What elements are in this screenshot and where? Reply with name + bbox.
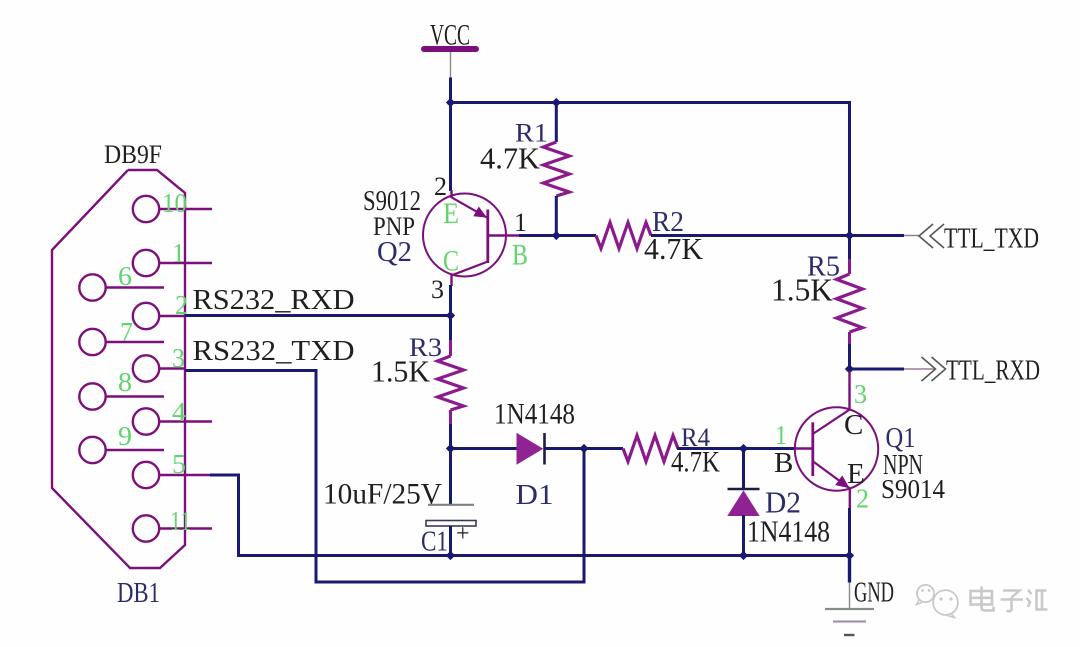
resistor R2 zigzag <box>596 223 651 249</box>
wire R2 to TTL_TXD port <box>651 234 904 237</box>
resistor R5 zigzag <box>837 274 863 332</box>
capacitor C1 top plate <box>428 504 474 506</box>
diode D1 value 1N4148 <box>494 398 575 431</box>
svg-text:1.5K: 1.5K <box>771 272 833 308</box>
node VCC top-rail junction <box>446 98 455 107</box>
diode D2 triangle <box>727 490 759 516</box>
ground GND label <box>854 577 894 609</box>
connector pin 3 number label <box>172 343 185 373</box>
svg-text:C: C <box>443 245 459 278</box>
svg-text:1N4148: 1N4148 <box>747 514 830 549</box>
wire node to R3 <box>449 314 452 341</box>
resistor R5 value 1.5K <box>771 272 833 308</box>
net RS232_TXD wire bottom horizontal <box>316 581 586 584</box>
connector pin 8 circle <box>79 383 105 409</box>
capacitor C1 value 10uF/25V <box>323 478 442 511</box>
connector pin 11 stub <box>159 527 212 529</box>
svg-text:3: 3 <box>854 379 867 409</box>
transistor Q1 emitter arrow (NPN, out of base) <box>835 475 849 488</box>
node R3/C1/D1 junction <box>446 444 455 453</box>
wire R5 top terminal <box>848 236 851 263</box>
node C1 bottom junction <box>446 551 455 560</box>
connector DB9F outline <box>52 170 185 568</box>
transistor Q1 C label <box>844 409 863 441</box>
svg-text:8: 8 <box>118 367 132 397</box>
connector pin 3 stub <box>159 367 186 369</box>
transistor Q1 pin3 label <box>854 379 867 409</box>
capacitor C1 top terminal <box>449 447 452 504</box>
connector pin 7 circle <box>79 329 105 355</box>
node D2 top junction <box>739 444 748 453</box>
capacitor C1 refdes <box>421 526 448 558</box>
svg-text:10: 10 <box>162 188 187 218</box>
svg-text:4: 4 <box>172 397 187 427</box>
port TTL_RXD chevron 2 <box>932 357 946 381</box>
transistor Q2 pin1 label <box>514 208 527 237</box>
resistor R5 top purple stub <box>848 259 851 274</box>
wire Q1 base purple stub <box>795 447 813 449</box>
connector pin 1 number label <box>172 238 185 268</box>
wire D2 vertical bottom <box>742 515 745 557</box>
connector pin 6 number label <box>118 261 132 291</box>
svg-text:6: 6 <box>118 261 132 291</box>
resistor R2 label <box>652 206 684 238</box>
svg-text:RS232_TXD: RS232_TXD <box>193 335 355 367</box>
net RS232_TXD wire vertical <box>315 369 318 584</box>
svg-text:E: E <box>443 197 459 230</box>
transistor Q1 B label <box>774 447 793 479</box>
connector pin 9 circle <box>79 437 105 463</box>
net RS232_RXD label <box>193 284 355 316</box>
port TTL_TXD label <box>944 223 1039 255</box>
connector pin 11 circle <box>133 515 159 541</box>
svg-text:1: 1 <box>775 420 787 450</box>
connector pin 1 circle <box>133 250 159 276</box>
resistor R1 zigzag <box>543 142 569 196</box>
node R1 bottom junction <box>552 231 561 240</box>
node TTL_RXD junction <box>845 364 854 373</box>
transistor Q1 refdes <box>886 422 916 454</box>
svg-text:C1: C1 <box>421 526 448 558</box>
connector DB9F title <box>104 140 162 169</box>
diode D1 refdes <box>516 479 554 511</box>
resistor R5 bottom purple stub <box>848 332 851 346</box>
connector DB1 refdes <box>117 577 160 609</box>
diode D2 cathode bar <box>728 488 760 491</box>
connector pin 1 stub <box>159 262 212 264</box>
transistor Q1 pin1 label <box>775 420 787 450</box>
wire R4 to Q1 base <box>677 447 796 450</box>
wire right drop from top rail <box>848 101 851 237</box>
connector pin 8 number label <box>118 367 132 397</box>
wire Q2 base to R2 <box>519 234 596 237</box>
transistor Q2 emitter line <box>452 197 489 218</box>
svg-text:4.7K: 4.7K <box>480 141 541 176</box>
svg-text:D1: D1 <box>516 479 554 511</box>
connector pin 4 number label <box>172 397 187 427</box>
connector pin 4 stub <box>159 420 212 422</box>
wire R3 bottom terminal <box>449 424 452 450</box>
wire Q2 base purple stub <box>488 234 519 236</box>
transistor Q2 C label <box>443 245 459 278</box>
watermark logo big bubble <box>933 590 958 617</box>
svg-text:4.7K: 4.7K <box>671 446 720 479</box>
svg-text:C: C <box>844 409 863 441</box>
wire bottom rail <box>239 554 852 557</box>
net RS232_TXD wire up to D1 <box>583 448 586 584</box>
transistor Q2 base bar <box>486 210 489 264</box>
watermark logo small bubble <box>917 585 935 605</box>
svg-text:B: B <box>512 239 528 272</box>
connector pin 10 number label <box>162 188 187 218</box>
svg-text:RS232_RXD: RS232_RXD <box>193 284 355 316</box>
transistor Q1 base bar <box>811 422 814 476</box>
svg-text:Q2: Q2 <box>377 236 412 268</box>
resistor R3 zigzag <box>438 356 464 410</box>
node D1/R4/TXD-loop junction <box>579 444 588 453</box>
svg-text:9: 9 <box>118 421 132 451</box>
net RS232_TXD label <box>193 335 355 367</box>
resistor R3 top purple stub <box>449 340 452 356</box>
wire VCC vertical to top rail <box>449 78 452 105</box>
resistor R2 value 4.7K <box>644 231 704 266</box>
power symbol VCC label <box>430 19 470 52</box>
svg-text:1.5K: 1.5K <box>371 354 431 389</box>
wire Q2 collector to node <box>449 285 452 317</box>
svg-text:TTL_RXD: TTL_RXD <box>946 355 1040 387</box>
connector pin 2 number label <box>175 290 188 320</box>
connector pin 7 number label <box>120 317 133 347</box>
transistor Q1 type NPN <box>883 449 923 481</box>
connector pin 10 circle <box>133 196 159 222</box>
node collector/RS232_RXD junction <box>446 311 455 320</box>
wire Q2 collector purple stub <box>450 275 452 287</box>
transistor Q2 circle <box>423 194 506 277</box>
diode D1 triangle <box>517 433 544 465</box>
wire node to D1 anode <box>451 447 518 450</box>
transistor Q2 emitter arrow (PNP, into base) <box>473 207 487 218</box>
connector pin 2 stub <box>159 315 186 317</box>
resistor R3 value 1.5K <box>371 354 431 389</box>
transistor Q1 E label <box>847 458 865 490</box>
wire top rail horizontal <box>449 101 851 104</box>
transistor Q1 circle <box>795 407 878 490</box>
transistor Q2 type PNP <box>373 212 415 241</box>
connector pin 4 circle <box>133 408 159 434</box>
node R1 top junction <box>552 98 561 107</box>
svg-text:3: 3 <box>172 343 185 373</box>
wire D1 cathode to junction <box>545 447 585 450</box>
connector pin 6 circle <box>79 274 105 300</box>
port TTL_TXD thin lead <box>904 235 919 237</box>
wire pin5 horizontal <box>210 474 240 477</box>
node TTL_TXD junction <box>845 231 854 240</box>
svg-text:TTL_TXD: TTL_TXD <box>944 223 1039 255</box>
connector pin 9 stub <box>106 449 165 451</box>
watermark char zi <box>1001 591 1024 612</box>
port TTL_RXD thin lead <box>904 368 934 370</box>
resistor R1 value 4.7K <box>480 141 541 176</box>
transistor Q1 name S9014 <box>881 474 945 504</box>
transistor Q2 refdes <box>377 236 412 268</box>
transistor Q2 pin2 label <box>434 172 447 201</box>
wire Q1 emitter to bottom rail <box>848 508 851 557</box>
svg-text:B: B <box>774 447 793 479</box>
capacitor C1 bottom terminal <box>449 526 452 557</box>
transistor Q1 collector stub <box>848 371 850 411</box>
transistor Q2 pin3 label <box>431 275 444 304</box>
power symbol VCC stem <box>450 52 452 78</box>
capacitor C1 plus sign <box>456 521 470 547</box>
svg-text:DB1: DB1 <box>117 577 160 609</box>
wire D2 vertical top <box>742 449 745 490</box>
svg-text:GND: GND <box>854 577 894 609</box>
connector pin 5 circle <box>133 462 159 488</box>
wire Q2 emitter purple stub <box>450 190 452 198</box>
connector pin 5 stub <box>159 474 210 476</box>
resistor R5 label <box>807 251 840 283</box>
svg-text:+: + <box>456 521 470 547</box>
resistor R4 zigzag <box>623 436 678 462</box>
watermark char hui <box>1027 590 1048 610</box>
port TTL_RXD chevron 1 <box>922 357 936 381</box>
net RS232_RXD wire <box>185 314 452 317</box>
svg-text:1: 1 <box>514 208 527 237</box>
connector pin 11 number label <box>170 506 191 536</box>
wire GND drop <box>848 556 851 583</box>
power symbol VCC bar <box>424 46 476 52</box>
svg-text:5: 5 <box>172 449 186 479</box>
capacitor C1 bottom plate <box>426 521 476 527</box>
connector pin 10 stub <box>159 208 212 210</box>
ground bar 1 <box>825 608 874 610</box>
connector pin 3 circle <box>133 355 159 381</box>
transistor Q2 B label <box>512 239 528 272</box>
svg-text:S9014: S9014 <box>881 474 945 504</box>
wire R5 bottom terminal <box>848 344 851 371</box>
resistor R3 label <box>409 333 442 362</box>
transistor Q1 collector line <box>814 410 850 434</box>
net RS232_TXD wire horizontal <box>185 369 318 372</box>
svg-text:DB9F: DB9F <box>104 140 162 169</box>
connector pin 7 stub <box>106 341 165 343</box>
transistor Q1 emitter stub <box>849 488 851 510</box>
wire TTL_RXD horizontal <box>848 368 904 371</box>
port TTL_TXD chevron 2 <box>930 224 944 248</box>
resistor R3 bottom purple stub <box>449 410 452 426</box>
wire pin5 vertical <box>237 474 240 558</box>
wire R1 top terminal <box>555 101 558 142</box>
wire Q2 emitter vertical (pin 2) <box>449 103 452 192</box>
resistor R4 value 4.7K <box>671 446 720 479</box>
svg-text:1N4148: 1N4148 <box>494 398 575 431</box>
svg-text:10uF/25V: 10uF/25V <box>323 478 442 511</box>
connector pin 6 stub <box>106 286 165 288</box>
wire junction to R4 <box>584 447 623 450</box>
svg-text:3: 3 <box>431 275 444 304</box>
watermark char dian <box>971 587 994 611</box>
port TTL_RXD label <box>946 355 1040 387</box>
connector pin 9 number label <box>118 421 132 451</box>
node GND junction <box>845 551 854 560</box>
diode D2 value 1N4148 <box>747 514 830 549</box>
transistor Q2 collector line <box>452 262 488 276</box>
connector pin 8 stub <box>106 395 165 397</box>
svg-text:11: 11 <box>170 506 191 536</box>
transistor Q2 name S9012 <box>363 185 421 217</box>
connector pin 2 circle <box>133 303 159 329</box>
svg-text:1: 1 <box>172 238 185 268</box>
ground bar 2 <box>833 621 866 623</box>
svg-text:2: 2 <box>856 484 869 514</box>
transistor Q2 E label <box>443 197 459 230</box>
transistor Q1 pin2 label <box>856 484 869 514</box>
svg-text:7: 7 <box>120 317 133 347</box>
connector pin 5 number label <box>172 449 186 479</box>
diode D1 cathode bar <box>543 433 546 465</box>
resistor R4 label <box>681 423 710 452</box>
node D2 bottom junction <box>739 551 748 560</box>
port TTL_TXD chevron 1 <box>919 224 933 248</box>
ground GND stem <box>849 583 851 610</box>
diode D2 refdes <box>765 485 801 520</box>
resistor R1 bottom terminal <box>555 196 558 237</box>
resistor R1 label <box>515 119 548 148</box>
ground bar 3 <box>844 634 855 636</box>
transistor Q1 emitter line <box>814 462 851 489</box>
